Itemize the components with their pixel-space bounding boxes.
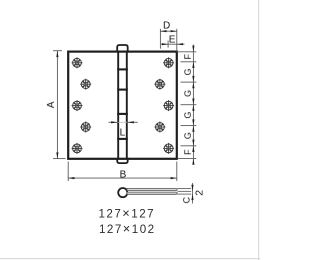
svg-text:F: F <box>183 149 193 155</box>
side view leaf bar 1 <box>127 188 177 190</box>
svg-text:127×102: 127×102 <box>99 221 156 236</box>
svg-text:127×127: 127×127 <box>98 206 155 221</box>
svg-text:2: 2 <box>194 190 206 196</box>
svg-text:B: B <box>120 169 127 180</box>
side view leaf bar 2 <box>127 192 177 194</box>
dim A <box>53 51 66 159</box>
screw R1 <box>163 57 174 68</box>
barrel top cap <box>117 45 128 52</box>
side view ext lines <box>178 183 193 204</box>
screw R3 <box>163 100 174 111</box>
svg-text:D: D <box>163 20 170 31</box>
screw L5 <box>72 143 83 154</box>
screw L2 <box>80 79 91 90</box>
screw R2 <box>154 79 165 90</box>
side view dim arrows <box>191 185 193 191</box>
svg-text:A: A <box>46 101 57 108</box>
knuckle dividers <box>117 69 128 138</box>
dim D <box>160 29 176 52</box>
dim E <box>167 41 169 48</box>
screw R5 <box>163 143 174 154</box>
dim L <box>109 121 117 123</box>
right chain dims <box>178 45 197 164</box>
dim B <box>68 162 177 182</box>
screw R4 <box>154 122 165 133</box>
barrel bottom cap <box>117 159 128 163</box>
screw L3 <box>72 100 83 111</box>
svg-text:G: G <box>183 112 193 119</box>
barrel side lines <box>117 52 119 159</box>
side view knuckle circle <box>118 188 127 197</box>
svg-text:C: C <box>182 196 192 203</box>
screw L1 <box>72 57 83 68</box>
svg-text:G: G <box>183 90 193 97</box>
svg-text:G: G <box>183 132 193 139</box>
svg-text:L: L <box>120 128 126 139</box>
screw L4 <box>80 122 91 133</box>
svg-text:F: F <box>183 54 193 60</box>
svg-text:G: G <box>183 68 193 75</box>
hinge plate outline <box>68 52 177 159</box>
svg-text:E: E <box>169 34 176 45</box>
